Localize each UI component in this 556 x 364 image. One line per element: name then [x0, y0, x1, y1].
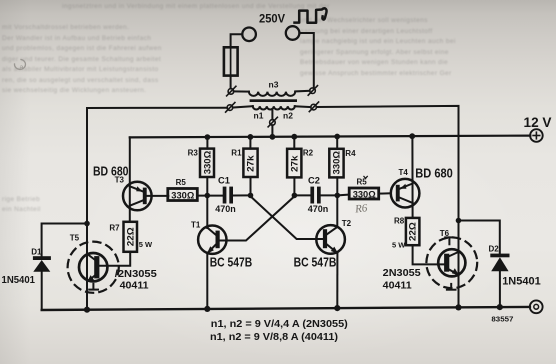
svg-text:/2N3055: /2N3055	[115, 268, 157, 280]
svg-text:T2: T2	[342, 219, 352, 228]
svg-text:C2: C2	[308, 175, 320, 185]
wire n2 winding to terminal	[295, 105, 311, 108]
transistor T5	[68, 242, 119, 293]
wire fuse to terminal	[230, 76, 232, 89]
svg-text:R2: R2	[303, 149, 314, 158]
svg-text:22Ω: 22Ω	[408, 222, 418, 241]
transistor T1	[198, 196, 226, 309]
wire terminal n2 right to right column	[317, 106, 459, 308]
wire n3 winding to terminal right	[295, 90, 310, 93]
wire X4 to R6	[337, 194, 349, 197]
wire R6 to T4 base	[379, 192, 391, 194]
svg-text:BD 680: BD 680	[415, 167, 453, 181]
svg-text:BC 547B: BC 547B	[210, 255, 253, 269]
wire terminal to n3 winding left	[234, 90, 249, 92]
capacitor C1	[223, 187, 227, 204]
svg-text:n3: n3	[269, 80, 279, 90]
node rail R1	[248, 134, 254, 140]
transformer core	[250, 99, 297, 102]
node rail T5	[84, 307, 90, 313]
svg-text:R5: R5	[176, 178, 187, 187]
svg-text:T5: T5	[70, 233, 80, 242]
terminal n3 left	[227, 86, 236, 96]
svg-text:27k: 27k	[246, 154, 256, 172]
wire bottom rail	[42, 307, 530, 310]
center tap wire	[271, 110, 273, 120]
svg-text:330Ω: 330Ω	[332, 151, 342, 175]
terminal n2 right	[309, 102, 318, 112]
svg-text:n1, n2 = 9 V/8,8 A (40411): n1, n2 = 9 V/8,8 A (40411)	[210, 331, 338, 343]
svg-text:C1: C1	[218, 175, 230, 185]
square wave symbol	[295, 8, 327, 22]
node rail R2	[291, 134, 297, 140]
node rail T4	[409, 133, 415, 139]
wire rail corner down through T3 to R7	[129, 137, 131, 221]
transistor T3	[123, 182, 168, 211]
svg-text:T4: T4	[399, 168, 409, 177]
svg-text:BC 547B: BC 547B	[294, 255, 337, 269]
terminal n3 right	[308, 86, 317, 96]
svg-text:2N3055: 2N3055	[383, 267, 421, 279]
svg-text:1N5401: 1N5401	[2, 274, 36, 286]
12V terminal	[530, 129, 543, 142]
wire cross coupling B to T1 base	[220, 197, 294, 241]
svg-text:R4: R4	[345, 149, 356, 158]
wire R5 to node X1 and C1	[197, 195, 222, 197]
wire +12V rail	[130, 136, 531, 138]
node rail R4	[334, 134, 340, 140]
wire rail to T4 to R8	[411, 136, 413, 218]
resistor R5	[168, 189, 198, 201]
wire R7 to T5 base	[100, 252, 131, 266]
node D2 branch	[456, 218, 462, 224]
svg-text:D1: D1	[31, 247, 42, 256]
svg-text:R8: R8	[394, 216, 405, 225]
node rail R3	[205, 134, 211, 140]
wire terminal n1 left to left column	[87, 108, 227, 310]
svg-text:R6: R6	[354, 202, 369, 215]
transformer winding n1 n2	[253, 106, 295, 109]
svg-text:n2: n2	[283, 110, 293, 120]
wire socket right down	[299, 33, 313, 88]
svg-text:40411: 40411	[120, 279, 149, 291]
node X3	[292, 193, 298, 199]
svg-text:1N5401: 1N5401	[502, 276, 541, 288]
fuse F	[224, 47, 238, 75]
node rail T2	[334, 305, 340, 311]
svg-text:T1: T1	[191, 221, 201, 230]
svg-text:40411: 40411	[383, 279, 412, 291]
svg-text:470n: 470n	[215, 204, 236, 214]
wire terminal to n1 winding	[233, 106, 253, 107]
svg-text:a: a	[20, 65, 24, 72]
resistor R6 (printed R5)	[349, 188, 379, 199]
transformer winding n3	[249, 92, 295, 96]
node rail T1	[204, 306, 210, 312]
svg-text:27k: 27k	[289, 154, 299, 172]
resistor R3	[206, 137, 208, 149]
wire cross coupling A to T2 base	[251, 197, 323, 239]
svg-text:R7: R7	[109, 223, 120, 232]
diode D1	[33, 224, 87, 311]
margin mark a	[14, 60, 25, 72]
svg-text:T6: T6	[440, 229, 450, 238]
node rail center tap	[270, 134, 276, 140]
resistor R1	[249, 137, 251, 149]
svg-text:R3: R3	[188, 149, 199, 158]
svg-text:R1: R1	[231, 149, 242, 158]
svg-text:n1, n2 = 9 V/4,4 A (2N3055): n1, n2 = 9 V/4,4 A (2N3055)	[211, 318, 348, 330]
transistor T6	[426, 237, 477, 289]
node rail T6	[455, 304, 461, 310]
wire R8 to T6 base	[413, 245, 445, 264]
node rail D2	[497, 304, 503, 310]
resistor R4	[336, 137, 338, 149]
transistor T4	[391, 179, 420, 208]
svg-text:250V: 250V	[259, 11, 285, 25]
svg-text:D2: D2	[489, 245, 500, 254]
diode D2	[459, 221, 510, 308]
svg-text:470n: 470n	[308, 204, 329, 214]
svg-text:83557: 83557	[491, 317, 513, 324]
node D1 branch	[84, 221, 90, 227]
resistor R2	[293, 137, 295, 149]
node X4	[335, 193, 341, 199]
resistor R7	[124, 222, 138, 252]
socket right	[286, 26, 300, 40]
0V terminal	[530, 300, 543, 313]
svg-text:5 W: 5 W	[392, 241, 406, 250]
svg-text:330Ω: 330Ω	[202, 151, 212, 175]
wire socket left to fuse	[231, 34, 243, 47]
node X2	[248, 193, 254, 199]
svg-text:22Ω: 22Ω	[125, 227, 135, 246]
wire center tap to rail	[271, 125, 273, 137]
svg-text:330Ω: 330Ω	[171, 190, 195, 200]
capacitor C2	[310, 187, 314, 204]
terminal center tap	[268, 117, 277, 127]
faint bleed-through text top row	[62, 3, 330, 10]
svg-text:BD 680: BD 680	[93, 164, 129, 178]
terminal n1 left	[226, 103, 235, 113]
node X1	[205, 193, 211, 199]
svg-text:n1: n1	[254, 110, 264, 120]
svg-text:12 V: 12 V	[524, 115, 552, 130]
svg-text:5 W: 5 W	[139, 240, 153, 249]
transistor T2	[316, 195, 345, 308]
svg-text:330Ω: 330Ω	[353, 190, 377, 200]
resistor R8	[406, 218, 420, 245]
socket left	[242, 28, 256, 42]
